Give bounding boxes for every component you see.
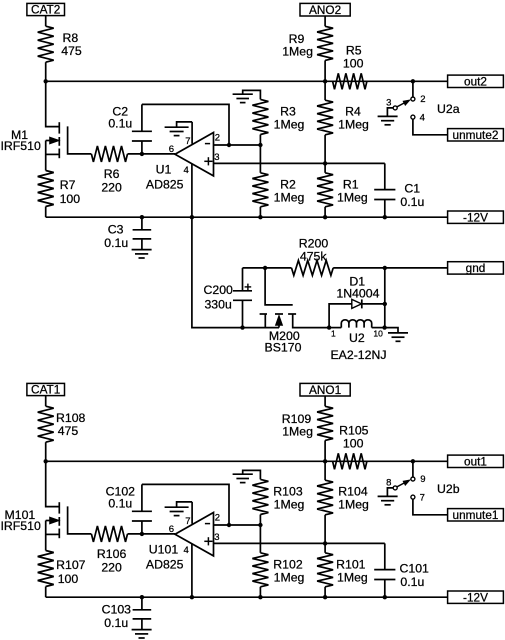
wire CAT to R top <box>45 16 47 27</box>
junction gate node <box>263 266 267 270</box>
resistor R101 <box>317 553 368 587</box>
svg-text:475k: 475k <box>300 250 328 264</box>
junction drain node <box>44 79 48 83</box>
ground at op-amp pin 7 <box>165 507 189 515</box>
svg-text:4: 4 <box>420 113 425 124</box>
svg-text:unmute1: unmute1 <box>453 508 499 522</box>
svg-text:1Meg: 1Meg <box>274 498 305 512</box>
svg-text:220: 220 <box>101 561 122 575</box>
svg-text:0.1u: 0.1u <box>400 195 424 209</box>
svg-text:100: 100 <box>343 437 364 451</box>
ground above R3 <box>233 94 253 102</box>
node out2 <box>448 75 504 89</box>
svg-text:U101: U101 <box>149 543 179 557</box>
svg-text:R4: R4 <box>345 105 361 119</box>
wire R3 to pin2 node <box>259 135 261 146</box>
wire op-amp pin 2 <box>214 524 261 526</box>
svg-text:7: 7 <box>185 516 190 527</box>
svg-text:gnd: gnd <box>466 261 486 275</box>
wire ground column <box>384 268 386 328</box>
junction pin3/R4 column <box>323 161 327 165</box>
wire pin4 to unmute <box>413 119 448 135</box>
junction relay pin 1 <box>327 325 336 338</box>
junction feedback/pin2 <box>227 523 231 527</box>
node CAT1 <box>27 383 65 397</box>
svg-text:R103: R103 <box>273 485 303 499</box>
wire R4 to pin3 wire <box>324 135 326 164</box>
wire R6 to op-amp input <box>128 533 176 535</box>
svg-text:CAT2: CAT2 <box>31 3 60 17</box>
svg-text:3: 3 <box>214 532 219 543</box>
wire op-amp pin 3 <box>214 162 385 164</box>
wire R2 to rail <box>259 207 261 217</box>
resistor R200 <box>292 237 334 276</box>
op-amp U1 <box>146 122 220 217</box>
wire R1 to rail <box>324 207 326 217</box>
junction rail/R1 <box>323 595 327 599</box>
switch U2b pin 9 contact <box>411 474 426 485</box>
svg-text:1: 1 <box>331 328 336 338</box>
wire ANO to R9 <box>324 396 326 406</box>
svg-text:R101: R101 <box>336 557 366 571</box>
junction rail/C3 <box>140 215 144 219</box>
node out1 <box>448 455 504 469</box>
wire pin7 ground step <box>177 502 193 507</box>
switch U2b pin 8 contact <box>386 477 397 490</box>
resistor R8 <box>38 26 82 62</box>
svg-text:-12V: -12V <box>463 210 488 224</box>
svg-text:1Meg: 1Meg <box>274 118 305 132</box>
op-amp U101 <box>146 502 220 597</box>
switch U2a pin 3 contact <box>386 97 397 110</box>
svg-text:R200: R200 <box>299 237 329 251</box>
junction rail/switch <box>411 459 415 463</box>
node -12V <box>448 210 504 224</box>
wire gate node to R200 <box>265 267 291 269</box>
ground above R3 <box>233 474 253 482</box>
resistor R1 <box>317 173 368 207</box>
svg-text:C101: C101 <box>400 561 430 575</box>
wire R4 to pin3 wire <box>324 515 326 544</box>
switch U2b pin 7 contact <box>411 493 425 504</box>
switch U2b common wire <box>412 461 414 477</box>
wire relay pin10 to ground <box>385 328 398 333</box>
svg-text:ANO1: ANO1 <box>309 383 341 397</box>
svg-text:BS170: BS170 <box>265 340 302 354</box>
svg-text:0.1u: 0.1u <box>104 616 128 630</box>
junction D1 cathode <box>383 302 387 306</box>
svg-text:220: 220 <box>101 181 122 195</box>
wire pin3 to ground <box>387 488 393 497</box>
resistor R5 <box>333 44 367 90</box>
svg-text:100: 100 <box>60 192 81 206</box>
svg-text:100: 100 <box>343 57 364 71</box>
svg-text:R3: R3 <box>280 105 296 119</box>
wire rail to R4 <box>324 81 326 100</box>
resistor R104 <box>317 480 369 515</box>
junction rail/R2 <box>258 595 262 599</box>
ground at switch <box>378 116 398 124</box>
wire R200 to gnd box <box>333 267 447 269</box>
junction rail/C3 <box>140 595 144 599</box>
wire R1 to rail <box>324 587 326 597</box>
svg-text:1Meg: 1Meg <box>282 44 313 58</box>
transistor M1 <box>1 81 92 170</box>
wire R3 ground step <box>243 90 261 99</box>
wire R3 node down to R2 <box>259 525 261 553</box>
wire R3 node down to R2 <box>259 145 261 173</box>
switch U2a common wire <box>412 81 414 97</box>
ground at switch <box>378 496 398 504</box>
node ANO2 <box>300 3 350 17</box>
capacitor C101 <box>374 543 429 597</box>
ground below C3 <box>132 630 152 638</box>
wire R7 to rail <box>45 587 47 598</box>
diode D1 <box>329 275 385 328</box>
svg-text:0.1u: 0.1u <box>104 236 128 250</box>
wire R3 to pin2 node <box>259 515 261 526</box>
wire main top rail <box>46 460 448 462</box>
svg-text:-12V: -12V <box>463 590 488 604</box>
svg-text:7: 7 <box>185 136 190 147</box>
wire -12V rail <box>46 216 448 218</box>
switch U2b label <box>437 482 460 496</box>
svg-text:9: 9 <box>420 474 425 485</box>
resistor R3 <box>252 99 304 134</box>
switch U2a arm <box>397 100 410 107</box>
svg-text:EA2-12NJ: EA2-12NJ <box>330 348 386 362</box>
junction rail/pin4 <box>190 215 194 219</box>
svg-text:4: 4 <box>184 545 189 556</box>
switch U2a pin 2 contact <box>411 94 426 105</box>
svg-text:out2: out2 <box>464 75 487 89</box>
junction relay pin 10 <box>373 325 386 338</box>
transistor M101 <box>1 461 92 550</box>
svg-text:1Meg: 1Meg <box>274 571 305 585</box>
wire ANO to R9 <box>324 16 326 26</box>
node ANO1 <box>300 383 350 397</box>
svg-text:0.1u: 0.1u <box>108 117 132 131</box>
capacitor C200 <box>203 268 252 328</box>
node unmute1 <box>448 508 504 522</box>
ground at relay <box>388 333 408 341</box>
capacitor C2 <box>108 104 152 153</box>
wire op-amp pin 2 <box>214 144 261 146</box>
svg-text:unmute2: unmute2 <box>453 128 499 142</box>
svg-text:R6: R6 <box>104 167 120 181</box>
svg-text:475: 475 <box>58 424 79 438</box>
svg-text:R106: R106 <box>97 547 127 561</box>
svg-text:R2: R2 <box>280 177 296 191</box>
junction pin2/R3 <box>258 143 262 147</box>
svg-text:0.1u: 0.1u <box>108 497 132 511</box>
svg-text:C3: C3 <box>108 223 124 237</box>
capacitor C102 <box>106 484 152 534</box>
wire R3 ground step <box>243 470 261 479</box>
svg-text:IRF510: IRF510 <box>1 519 41 533</box>
node CAT2 <box>27 3 65 17</box>
svg-text:7: 7 <box>420 493 425 504</box>
wire pin3 to R1 <box>324 543 326 552</box>
svg-text:330u: 330u <box>204 297 232 311</box>
svg-text:10: 10 <box>373 328 383 338</box>
wire R8 to drain junction <box>45 62 47 81</box>
resistor R109 <box>282 406 333 440</box>
svg-text:1Meg: 1Meg <box>337 191 368 205</box>
svg-text:1Meg: 1Meg <box>338 118 369 132</box>
svg-text:R107: R107 <box>56 558 86 572</box>
wire pin3 to R1 <box>324 163 326 172</box>
node -12V <box>448 590 504 604</box>
junction rail/C1 <box>383 595 387 599</box>
svg-text:R102: R102 <box>273 557 303 571</box>
wire -12V rail <box>46 596 448 598</box>
relay coil U2 <box>329 320 386 362</box>
resistor R9 <box>282 26 333 60</box>
resistor R4 <box>317 100 369 135</box>
svg-text:U2a: U2a <box>437 102 460 116</box>
wire R8 to drain junction <box>45 442 47 461</box>
svg-text:U2b: U2b <box>437 482 460 496</box>
wire R2 to rail <box>259 587 261 597</box>
resistor R102 <box>252 553 304 587</box>
junction C2 tap <box>140 532 144 536</box>
svg-text:1Meg: 1Meg <box>338 498 369 512</box>
wire R9 to rail <box>324 60 326 81</box>
svg-text:R105: R105 <box>339 424 369 438</box>
svg-text:3: 3 <box>386 97 391 108</box>
resistor R103 <box>252 479 304 514</box>
svg-text:C1: C1 <box>404 181 420 195</box>
switch U2b arm <box>397 480 410 487</box>
junction rail/ANO column <box>323 459 327 463</box>
svg-text:2: 2 <box>215 132 220 143</box>
junction pin3/R4 column <box>323 541 327 545</box>
wire rail to R4 <box>324 461 326 480</box>
svg-text:2: 2 <box>420 94 425 105</box>
svg-text:R5: R5 <box>346 44 362 58</box>
svg-text:AD825: AD825 <box>146 558 184 572</box>
svg-text:R7: R7 <box>60 178 76 192</box>
svg-text:R104: R104 <box>338 485 368 499</box>
junction rail/R2 <box>258 215 262 219</box>
svg-text:2: 2 <box>215 512 220 523</box>
wire pin3 to ground <box>387 108 393 117</box>
svg-text:C200: C200 <box>203 283 233 297</box>
wire R7 to rail <box>45 207 47 218</box>
svg-text:U1: U1 <box>156 163 172 177</box>
svg-text:AD825: AD825 <box>146 178 184 192</box>
wire C200 top to gate node <box>243 267 266 269</box>
junction rail/switch <box>411 79 415 83</box>
junction rail/R1 <box>323 215 327 219</box>
junction rail/pin4 <box>190 595 194 599</box>
resistor R7 <box>38 171 81 207</box>
junction drain node <box>44 459 48 463</box>
junction feedback/pin2 <box>227 143 231 147</box>
node gnd <box>448 261 504 275</box>
svg-text:100: 100 <box>58 572 79 586</box>
wire op-amp pin 3 <box>214 542 385 544</box>
switch U2a label <box>437 102 460 116</box>
svg-text:out1: out1 <box>464 455 487 469</box>
node unmute2 <box>448 128 504 142</box>
capacitor C3 <box>104 217 151 250</box>
svg-text:CAT1: CAT1 <box>31 383 60 397</box>
wire feedback top <box>142 484 229 525</box>
resistor R107 <box>38 551 86 587</box>
svg-text:6: 6 <box>169 524 174 535</box>
svg-text:1Meg: 1Meg <box>282 424 313 438</box>
transistor M200 <box>260 268 330 354</box>
svg-text:0.1u: 0.1u <box>400 575 424 589</box>
wire main top rail <box>46 80 448 82</box>
ground at op-amp pin 7 <box>165 127 189 135</box>
junction pin2/R3 <box>258 523 262 527</box>
wire pin4 node down to relay section <box>192 217 279 327</box>
svg-text:1Meg: 1Meg <box>274 191 305 205</box>
wire R9 to rail <box>324 440 326 461</box>
junction rail/C1 <box>383 215 387 219</box>
svg-text:IRF510: IRF510 <box>1 139 41 153</box>
svg-text:1Meg: 1Meg <box>337 571 368 585</box>
ground below C3 <box>132 250 152 258</box>
svg-text:ANO2: ANO2 <box>309 3 341 17</box>
junction R200/ground column <box>383 266 387 270</box>
junction C2 tap <box>140 152 144 156</box>
svg-text:8: 8 <box>386 477 391 488</box>
wire feedback top <box>142 104 229 145</box>
resistor R106 <box>91 526 127 575</box>
wire R6 to op-amp input <box>128 153 176 155</box>
svg-text:6: 6 <box>169 144 174 155</box>
svg-text:4: 4 <box>184 165 189 176</box>
resistor R108 <box>38 406 86 442</box>
wire pin4 to unmute <box>413 499 448 515</box>
wire pin7 ground step <box>177 122 193 127</box>
switch U2a pin 4 contact <box>411 113 425 124</box>
svg-text:475: 475 <box>61 44 82 58</box>
resistor R2 <box>252 173 304 207</box>
capacitor C103 <box>102 597 152 630</box>
capacitor C1 <box>374 163 424 217</box>
resistor R105 <box>333 424 369 470</box>
svg-text:C103: C103 <box>102 603 132 617</box>
svg-text:1N4004: 1N4004 <box>336 286 379 300</box>
junction rail/ANO column <box>323 79 327 83</box>
wire CAT to R top <box>45 396 47 407</box>
resistor R6 <box>91 146 127 195</box>
junction C200 bottom <box>240 325 244 329</box>
svg-text:U2: U2 <box>349 331 365 345</box>
svg-text:R1: R1 <box>343 177 359 191</box>
svg-text:3: 3 <box>214 152 219 163</box>
